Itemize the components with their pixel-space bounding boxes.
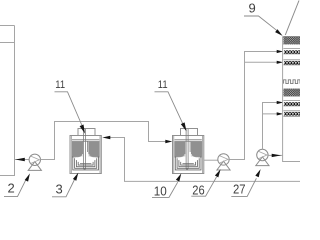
arrow leader 11b	[181, 122, 187, 131]
svg-text:11: 11	[158, 79, 168, 91]
vent line top right	[285, 1, 299, 36]
arrow leader 27	[255, 169, 260, 177]
svg-text:11: 11	[55, 79, 65, 91]
reactor 10	[173, 129, 204, 174]
wire pump27 top riser to column	[263, 103, 278, 150]
svg-text:9: 9	[249, 1, 256, 16]
arrow leader 11a	[80, 125, 85, 134]
arrow feed lower 1	[277, 101, 284, 104]
wire reactor10 to pump26	[204, 159, 218, 161]
wire pump2 discharge riser	[41, 122, 167, 160]
arrow leader 3	[73, 173, 78, 181]
column tray X band 4	[284, 112, 301, 115]
column demister meander	[284, 80, 300, 84]
wire recycle line into reactor 3	[110, 138, 301, 182]
pump 2	[28, 154, 41, 170]
arrow into tank	[15, 158, 24, 162]
arrow leader 9	[275, 29, 283, 36]
arrow leader 2	[25, 173, 30, 181]
column tray X band 1	[284, 50, 301, 53]
svg-text:10: 10	[154, 183, 167, 198]
pump 26	[217, 154, 230, 170]
arrow pump27 discharge	[272, 154, 282, 157]
column packing hatch band A	[283, 37, 300, 45]
arrow leader 10	[176, 173, 181, 181]
svg-text:2: 2	[8, 181, 15, 196]
column tray X band 3	[284, 102, 301, 105]
wire pump26 discharge riser to column	[229, 52, 277, 160]
wire pump2 suction	[14, 159, 29, 161]
svg-text:26: 26	[192, 182, 204, 197]
arrow into reactor 10	[165, 140, 172, 143]
tank T1 (left, cut off at edge)	[0, 26, 15, 176]
arrow feed upper 2	[277, 61, 284, 64]
wire pump27 discharge	[268, 154, 283, 156]
column packing hatch band B	[283, 89, 300, 97]
arrow into reactor 3	[102, 136, 110, 139]
arrow leader 26	[215, 169, 221, 177]
svg-text:27: 27	[233, 181, 246, 196]
pump 27	[256, 149, 269, 165]
column 9 shell	[283, 37, 300, 162]
svg-text:3: 3	[56, 182, 63, 197]
column tray X band 2	[283, 59, 300, 61]
reactor 3	[70, 129, 101, 174]
arrow feed lower 2	[277, 112, 284, 115]
arrow feed upper 1	[277, 50, 284, 53]
